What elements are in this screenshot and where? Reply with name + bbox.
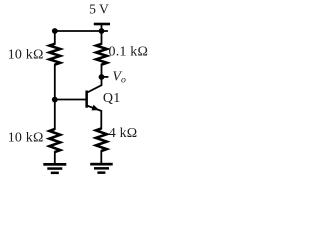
- svg-text:5 V: 5 V: [89, 2, 109, 17]
- svg-text:4 kΩ: 4 kΩ: [109, 126, 138, 141]
- svg-text:10 kΩ: 10 kΩ: [8, 47, 44, 62]
- svg-text:10 kΩ: 10 kΩ: [8, 130, 44, 145]
- svg-text:0.1 kΩ: 0.1 kΩ: [109, 45, 149, 60]
- svg-text:Q1: Q1: [103, 91, 121, 106]
